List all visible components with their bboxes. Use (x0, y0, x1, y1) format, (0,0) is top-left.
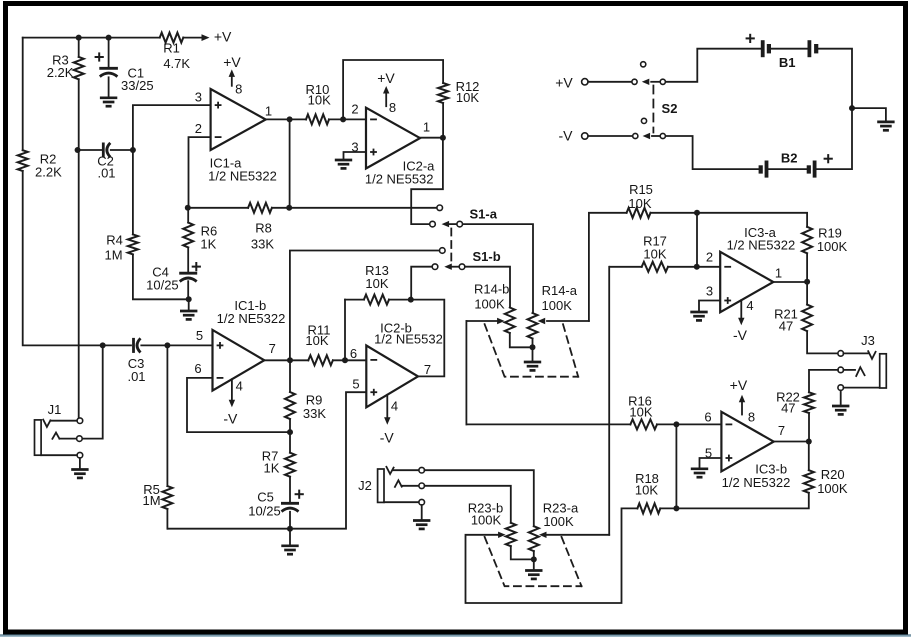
svg-text:100K: 100K (817, 239, 848, 254)
svg-text:1: 1 (423, 120, 430, 135)
svg-text:S1-a: S1-a (470, 207, 498, 222)
svg-text:10/25: 10/25 (146, 278, 179, 293)
svg-text:33K: 33K (303, 406, 326, 421)
svg-text:5: 5 (352, 377, 359, 392)
svg-text:4: 4 (391, 399, 398, 414)
svg-text:1K: 1K (200, 237, 216, 252)
svg-text:100K: 100K (474, 297, 505, 312)
svg-text:.01: .01 (97, 166, 115, 181)
svg-text:4: 4 (746, 298, 753, 313)
svg-text:47: 47 (781, 401, 795, 416)
svg-text:2.2K: 2.2K (35, 165, 62, 180)
svg-text:R4: R4 (106, 233, 123, 248)
svg-text:1M: 1M (104, 248, 122, 263)
svg-text:5: 5 (196, 328, 203, 343)
svg-text:J3: J3 (861, 333, 875, 348)
svg-text:+V: +V (730, 377, 748, 393)
svg-text:2: 2 (195, 121, 202, 136)
svg-text:B2: B2 (781, 151, 798, 166)
svg-text:8: 8 (235, 82, 242, 97)
svg-text:6: 6 (194, 361, 201, 376)
svg-text:J2: J2 (358, 478, 372, 493)
svg-text:1/2 NE5322: 1/2 NE5322 (217, 311, 286, 326)
svg-text:1: 1 (775, 266, 782, 281)
svg-text:33K: 33K (251, 237, 274, 252)
svg-text:R14-a: R14-a (542, 283, 578, 298)
svg-text:10K: 10K (456, 90, 479, 105)
svg-text:7: 7 (424, 362, 431, 377)
svg-text:100K: 100K (543, 514, 574, 529)
svg-text:-V: -V (559, 128, 574, 144)
svg-text:1/2 NE5532: 1/2 NE5532 (374, 332, 443, 347)
svg-text:10K: 10K (305, 333, 328, 348)
svg-text:10K: 10K (643, 247, 666, 262)
svg-text:8: 8 (389, 100, 396, 115)
svg-text:100K: 100K (471, 513, 502, 528)
svg-text:1/2 NE5532: 1/2 NE5532 (365, 172, 434, 187)
svg-text:100K: 100K (817, 481, 848, 496)
svg-text:10/25: 10/25 (248, 504, 281, 519)
svg-text:B1: B1 (779, 55, 796, 70)
svg-text:10K: 10K (365, 276, 388, 291)
svg-text:R20: R20 (821, 467, 845, 482)
svg-text:33/25: 33/25 (121, 78, 154, 93)
svg-text:1/2 NE5322: 1/2 NE5322 (727, 238, 796, 253)
svg-text:1/2 NE5322: 1/2 NE5322 (208, 169, 277, 184)
svg-text:6: 6 (704, 410, 711, 425)
svg-text:1/2 NE5322: 1/2 NE5322 (722, 475, 791, 490)
svg-text:J1: J1 (48, 402, 62, 417)
svg-text:S1-b: S1-b (473, 249, 501, 264)
svg-text:4: 4 (236, 379, 243, 394)
svg-text:+V: +V (555, 75, 573, 91)
svg-text:10K: 10K (308, 93, 331, 108)
svg-text:100K: 100K (542, 298, 573, 313)
svg-text:2.2K: 2.2K (47, 65, 74, 80)
svg-text:+V: +V (214, 29, 232, 45)
svg-text:R8: R8 (255, 221, 272, 236)
svg-text:10K: 10K (628, 196, 651, 211)
svg-text:-V: -V (380, 430, 395, 446)
svg-text:4.7K: 4.7K (163, 56, 190, 71)
svg-text:1K: 1K (264, 461, 280, 476)
svg-text:47: 47 (779, 319, 793, 334)
svg-text:-V: -V (733, 327, 748, 343)
svg-text:2: 2 (351, 102, 358, 117)
svg-text:S2: S2 (662, 101, 678, 116)
svg-text:1: 1 (265, 104, 272, 119)
svg-text:.01: .01 (127, 369, 145, 384)
svg-text:8: 8 (748, 410, 755, 425)
svg-text:+V: +V (377, 70, 395, 86)
svg-text:-V: -V (223, 411, 238, 427)
svg-text:C5: C5 (257, 490, 274, 505)
svg-text:6: 6 (350, 346, 357, 361)
svg-text:10K: 10K (635, 483, 658, 498)
svg-text:5: 5 (705, 446, 712, 461)
svg-text:10K: 10K (629, 405, 652, 420)
svg-text:1M: 1M (142, 493, 160, 508)
svg-text:7: 7 (778, 423, 785, 438)
svg-text:7: 7 (269, 341, 276, 356)
svg-text:R15: R15 (629, 182, 653, 197)
svg-text:R1: R1 (163, 41, 180, 56)
svg-text:R14-b: R14-b (474, 282, 509, 297)
svg-text:+V: +V (223, 54, 241, 70)
svg-text:2: 2 (706, 250, 713, 265)
svg-text:3: 3 (706, 284, 713, 299)
svg-text:3: 3 (195, 89, 202, 104)
svg-text:3: 3 (351, 140, 358, 155)
